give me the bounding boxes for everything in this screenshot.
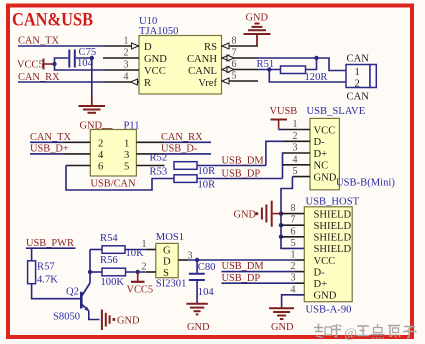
svg-text:USB-B(Mini): USB-B(Mini) xyxy=(336,178,395,189)
svg-text:5: 5 xyxy=(293,166,298,177)
wire USB_D+ xyxy=(30,153,62,155)
svg-text:1: 1 xyxy=(355,67,360,78)
ground GND top right for pin8 xyxy=(244,13,271,47)
svg-text:SHIELD: SHIELD xyxy=(314,233,352,244)
svg-text:3: 3 xyxy=(124,150,129,161)
svg-text:GND: GND xyxy=(246,13,269,24)
pin 5 slave xyxy=(292,166,310,177)
pin 8 host xyxy=(281,203,304,214)
pin 1 MOS1 xyxy=(142,239,156,250)
pin 1 slave xyxy=(283,119,310,130)
pin 2 P11 xyxy=(62,138,103,149)
node shield junction pin7 xyxy=(279,223,283,227)
resistor R57 xyxy=(28,261,36,284)
svg-text:D-: D- xyxy=(314,137,326,148)
svg-text:3: 3 xyxy=(293,143,298,154)
svg-text:3: 3 xyxy=(291,273,296,284)
wire VCC5 to pin3 xyxy=(55,64,104,70)
wire USB_DM host xyxy=(222,271,295,273)
pin 4 slave xyxy=(283,154,310,165)
wire USB_DP riser xyxy=(282,153,285,179)
resistor R56 xyxy=(102,268,126,276)
wire USB/CAN zig xyxy=(66,166,174,191)
svg-text:CAN&USB: CAN&USB xyxy=(12,10,93,31)
wire VCC5 to C75 xyxy=(55,58,69,64)
pin 3 host xyxy=(291,273,305,284)
power port VUSB xyxy=(270,106,298,130)
svg-text:CANL: CANL xyxy=(188,66,217,77)
resistor R53 xyxy=(174,175,197,183)
node CANL junction xyxy=(267,67,271,71)
svg-text:USB_SLAVE: USB_SLAVE xyxy=(307,106,366,117)
svg-text:USB_D+: USB_D+ xyxy=(30,143,69,154)
svg-text:1: 1 xyxy=(124,138,129,149)
resistor R52 xyxy=(174,162,197,170)
wire C75 to GND junction xyxy=(76,57,92,59)
wire host pin4 to ground xyxy=(282,295,305,308)
wire R54 left xyxy=(90,249,102,251)
pin 6 P11 xyxy=(66,162,103,173)
wire R57 to Q2 base xyxy=(32,284,81,299)
svg-text:S8050: S8050 xyxy=(53,312,80,323)
svg-text:5: 5 xyxy=(232,71,237,82)
svg-text:1: 1 xyxy=(293,119,298,130)
svg-text:6: 6 xyxy=(98,162,103,173)
pin 1 U10 xyxy=(103,36,139,50)
svg-text:R56: R56 xyxy=(100,255,118,266)
pin 7 host xyxy=(281,215,304,226)
svg-text:CAN: CAN xyxy=(347,54,370,65)
svg-text:SHIELD: SHIELD xyxy=(314,244,352,255)
pin 6 host xyxy=(281,226,304,237)
wire VUSB to pin1 xyxy=(279,129,283,131)
connector USB_HOST body xyxy=(304,207,352,302)
pin 5 P11 xyxy=(124,162,164,173)
svg-text:USB_DM: USB_DM xyxy=(222,155,264,166)
node VCC5 junction xyxy=(52,62,56,66)
wire CAN_TX to P11 xyxy=(30,141,62,143)
svg-text:2: 2 xyxy=(142,261,147,272)
wire USB_PWR xyxy=(26,247,76,249)
svg-text:VCC: VCC xyxy=(314,125,336,136)
wire R56 left xyxy=(90,271,102,273)
svg-text:R54: R54 xyxy=(100,233,118,244)
wire R54 right xyxy=(125,249,146,251)
svg-text:2: 2 xyxy=(293,131,298,142)
pin 3 MOS1 xyxy=(178,250,192,261)
svg-text:GND: GND xyxy=(117,316,140,327)
svg-text:8: 8 xyxy=(232,36,237,47)
svg-text:R52: R52 xyxy=(150,153,168,164)
svg-text:5: 5 xyxy=(124,162,129,173)
svg-text:2: 2 xyxy=(124,48,129,59)
svg-text:NC: NC xyxy=(314,161,329,172)
wire USB_PWR to R57 xyxy=(31,248,33,261)
svg-text:SHIELD: SHIELD xyxy=(314,209,352,220)
svg-text:D+: D+ xyxy=(314,149,328,160)
watermark 知乎 @正点原子 xyxy=(314,324,417,342)
wire slave GND to shield chain xyxy=(281,177,304,249)
svg-text:GND: GND xyxy=(187,322,210,333)
transistor Q2 xyxy=(81,283,90,311)
pin 1 P11 xyxy=(124,138,164,149)
capacitor C75 xyxy=(69,50,75,68)
svg-text:USB_PWR: USB_PWR xyxy=(26,238,74,249)
wire CANL to CAN pin2 xyxy=(269,70,346,83)
wire R56 right xyxy=(126,271,146,273)
power GND label at P11 xyxy=(80,120,113,131)
node GND junction on pin2 xyxy=(90,56,94,60)
resistor R54 xyxy=(102,246,125,254)
svg-text:4: 4 xyxy=(124,72,129,83)
svg-text:5: 5 xyxy=(291,238,296,249)
pin 5 host xyxy=(291,238,296,249)
svg-text:3: 3 xyxy=(124,60,129,71)
wire R52 to USB_DM xyxy=(197,165,266,167)
IC U10 body xyxy=(139,36,222,95)
pin 2 MOS1 xyxy=(142,261,156,272)
svg-text:4: 4 xyxy=(98,150,104,161)
ground GND bracket at Q2 xyxy=(102,310,140,331)
svg-text:MOS1: MOS1 xyxy=(156,232,184,243)
svg-text:6: 6 xyxy=(291,226,296,237)
wire CANL xyxy=(258,69,281,71)
svg-text:USB/CAN: USB/CAN xyxy=(91,179,137,190)
svg-text:D+: D+ xyxy=(314,279,328,290)
svg-text:SHIELD: SHIELD xyxy=(314,221,352,232)
svg-text:RS: RS xyxy=(204,42,217,53)
wire CAN_RX from P11 xyxy=(164,141,211,143)
node shield junction pin6 xyxy=(279,235,283,239)
svg-text:4: 4 xyxy=(293,154,298,165)
resistor R51 xyxy=(281,66,306,74)
svg-text:7: 7 xyxy=(291,215,296,226)
svg-text:GND: GND xyxy=(144,54,167,65)
pin 4 U10 xyxy=(103,72,139,86)
wire left vertical R54 R56 xyxy=(89,250,91,284)
pin 3 U10 xyxy=(103,60,139,71)
svg-text:G: G xyxy=(163,245,171,256)
svg-text:3: 3 xyxy=(188,250,193,261)
svg-text:CANH: CANH xyxy=(187,54,217,65)
svg-text:CAN_RX: CAN_RX xyxy=(161,132,203,143)
svg-text:CAN: CAN xyxy=(347,92,370,103)
pin 8 U10 xyxy=(222,36,259,50)
svg-text:VCC5: VCC5 xyxy=(127,285,154,296)
svg-text:@: @ xyxy=(344,327,357,342)
svg-text:CAN_TX: CAN_TX xyxy=(30,132,71,143)
svg-text:USB_DP: USB_DP xyxy=(222,273,261,284)
svg-text:D: D xyxy=(163,257,171,268)
svg-text:2: 2 xyxy=(98,138,103,149)
node C80 junction xyxy=(195,258,199,262)
svg-text:Vref: Vref xyxy=(198,78,217,89)
pin 4 P11 xyxy=(62,150,104,161)
svg-text:C75: C75 xyxy=(79,47,97,58)
svg-text:D: D xyxy=(144,42,152,53)
connector USB_SLAVE body xyxy=(310,118,339,189)
svg-text:4: 4 xyxy=(291,284,296,295)
svg-text:R: R xyxy=(144,78,152,89)
svg-text:GND: GND xyxy=(314,291,337,302)
ground GND bracket at shield xyxy=(234,201,282,227)
svg-text:100K: 100K xyxy=(101,277,125,288)
pin 2 host xyxy=(291,261,305,272)
connector P11 body xyxy=(90,130,136,177)
svg-text:120R: 120R xyxy=(305,72,329,83)
pin 3 P11 xyxy=(124,150,164,161)
svg-text:1: 1 xyxy=(124,36,129,47)
svg-text:VCC: VCC xyxy=(314,256,336,267)
ground GND below C75 xyxy=(79,97,106,113)
connector CAN xyxy=(346,65,376,88)
wire CAN_TX xyxy=(18,45,103,47)
pin 6 U10 xyxy=(222,59,259,73)
svg-text:C80: C80 xyxy=(198,262,216,273)
wire VCC long run MOS1 pin3 to host pin1 xyxy=(188,259,294,261)
wire CANH xyxy=(258,58,346,71)
svg-text:GND: GND xyxy=(314,172,337,183)
svg-text:VUSB: VUSB xyxy=(270,106,298,117)
svg-text:GND: GND xyxy=(234,210,257,221)
node CANH junction xyxy=(314,56,318,60)
svg-text:Q2: Q2 xyxy=(66,287,79,298)
svg-text:USB_HOST: USB_HOST xyxy=(306,197,360,208)
pin 3 slave xyxy=(283,143,310,154)
node R56 junction xyxy=(88,270,92,274)
svg-text:S: S xyxy=(163,268,169,279)
svg-text:2: 2 xyxy=(291,261,296,272)
svg-text:USB_DP: USB_DP xyxy=(222,168,261,179)
wire R53 to USB_DP xyxy=(197,178,283,180)
wire USB_DP host xyxy=(222,282,295,284)
pin 5 U10 xyxy=(222,71,259,85)
wire USB_DM riser xyxy=(266,141,283,165)
pin 7 U10 xyxy=(222,48,259,62)
svg-text:GND: GND xyxy=(271,322,294,333)
power port VCC5 at MOS1 xyxy=(127,272,154,296)
pin 1 host xyxy=(291,250,305,261)
wire Q2 emitter to ground xyxy=(89,311,100,320)
svg-text:10R: 10R xyxy=(198,180,217,191)
ground GND under host pin4 xyxy=(269,308,294,333)
svg-text:104: 104 xyxy=(198,287,215,298)
svg-text:10R: 10R xyxy=(198,166,217,177)
transistor MOS1 body xyxy=(156,243,178,277)
svg-text:4.7K: 4.7K xyxy=(37,275,58,286)
ground GND under C80 xyxy=(186,304,210,333)
pin 4 host xyxy=(291,284,305,295)
node VCC5 junction at R56 xyxy=(136,270,140,274)
wire GND vertical xyxy=(91,58,93,97)
power port VCC5 tick xyxy=(44,59,53,70)
pin 2 U10 xyxy=(103,48,139,59)
svg-text:R51: R51 xyxy=(257,59,275,70)
svg-text:VCC5: VCC5 xyxy=(17,60,44,71)
wire CAN_RX xyxy=(18,81,103,83)
node shield junction pin8 xyxy=(279,211,283,215)
svg-text:R57: R57 xyxy=(37,262,55,273)
svg-text:CAN_TX: CAN_TX xyxy=(18,36,59,47)
wire USB_D- xyxy=(164,153,211,155)
svg-text:8: 8 xyxy=(291,203,296,214)
svg-text:USB_DM: USB_DM xyxy=(222,261,264,272)
pin 2 slave xyxy=(283,131,310,142)
svg-text:USB-A-90: USB-A-90 xyxy=(306,305,352,316)
svg-text:SI2301: SI2301 xyxy=(156,279,187,290)
svg-text:D-: D- xyxy=(314,267,326,278)
capacitor C80 xyxy=(189,260,205,303)
svg-text:VCC: VCC xyxy=(144,66,166,77)
svg-text:2: 2 xyxy=(355,78,360,89)
wire R51 right leg xyxy=(306,58,317,70)
svg-text:1: 1 xyxy=(291,250,296,261)
svg-text:R53: R53 xyxy=(150,166,168,177)
